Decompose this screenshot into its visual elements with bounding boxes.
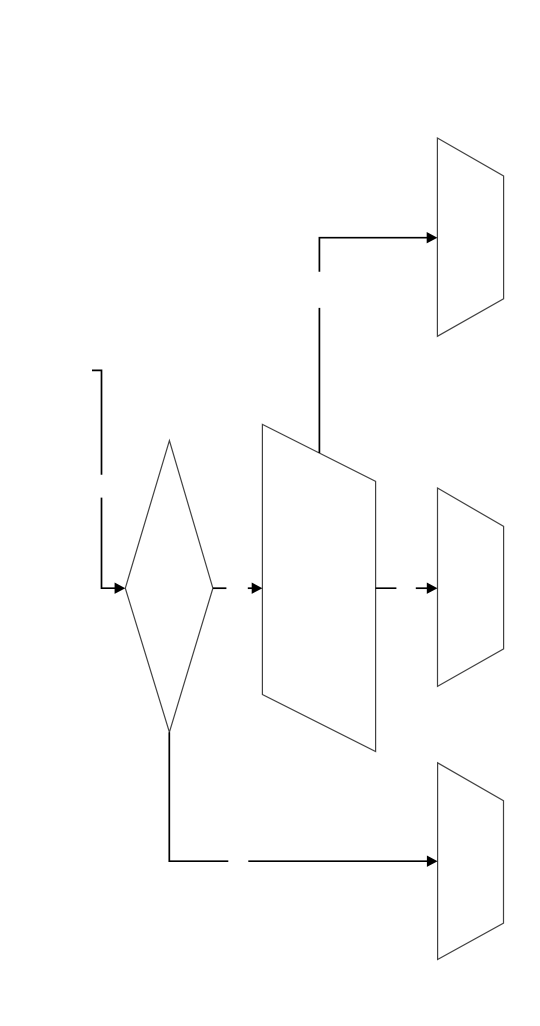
wire: connector A lower segment with arrow into diamond left vertex bbox=[102, 498, 126, 594]
wire: connector D upper segment with arrow into trapezoid S1 bbox=[319, 232, 437, 272]
wire: connector B second segment with arrow into parallelogram P1 bbox=[248, 583, 263, 594]
process parallelogram P1 bbox=[262, 424, 375, 751]
decision diamond D1 bbox=[125, 441, 213, 733]
wire: connector B from diamond right vertex (first dash) bbox=[213, 587, 227, 589]
output trapezoid S3 (bottom right) bbox=[438, 763, 504, 960]
wire: connector E second segment with arrow into trapezoid S3 bbox=[248, 856, 437, 867]
wire: connector D lower segment rising from parallelogram top edge bbox=[318, 308, 320, 453]
wire: connector A from top-left into diamond D1 (upper segment) bbox=[92, 370, 102, 474]
wire: connector E from diamond bottom vertex down and right (first run) bbox=[169, 732, 228, 861]
output trapezoid S2 (middle right) bbox=[438, 488, 504, 686]
output trapezoid S1 (top right) bbox=[437, 138, 503, 336]
wire: connector C from parallelogram right edge (first dash) bbox=[376, 587, 397, 589]
wire: connector C second segment with arrow into trapezoid S2 bbox=[416, 583, 438, 594]
